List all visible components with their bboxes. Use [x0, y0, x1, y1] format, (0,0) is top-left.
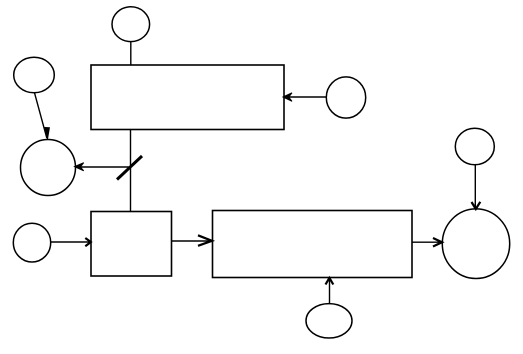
circle C4 (lower left): [13, 223, 50, 262]
wire C2 to E1: [35, 93, 47, 138]
arrowhead into C5 left edge: [433, 238, 442, 247]
arrowhead into R1 right edge: [283, 93, 292, 102]
wire C6 to C5: [474, 165, 476, 209]
wire E2 to R2: [329, 278, 331, 304]
arrowhead into R2 bottom edge: [326, 278, 334, 285]
wire R2 to C5: [412, 241, 442, 243]
wire S1 to R2: [172, 240, 213, 242]
arrowhead into R2 left edge: [198, 235, 212, 246]
square S1: [91, 212, 172, 277]
wire C1 to R1: [130, 42, 132, 65]
rectangle R1: [91, 65, 284, 130]
rectangle R2: [213, 211, 413, 278]
circle C6 (top right): [455, 128, 494, 165]
circle C3 (right of R1): [326, 77, 365, 118]
ellipse E2 (bottom): [306, 304, 352, 338]
wire C3 to R1: [284, 96, 326, 98]
wire C4 to S1: [51, 241, 91, 243]
circle C5 (big right): [442, 209, 509, 279]
arrowhead into E1 top: [45, 128, 49, 140]
wire junction to E1: [76, 166, 131, 168]
arrowhead into S1 left edge: [85, 238, 91, 246]
wire R1 to S1 (vertical): [130, 130, 132, 212]
beam splitter diagonal: [117, 156, 142, 180]
ellipse E1 (left): [21, 140, 76, 196]
circle C1 (top): [112, 7, 150, 42]
arrowhead into C5 top edge: [472, 202, 481, 209]
arrowhead into E1 right edge: [75, 163, 84, 171]
circle C2 (upper left): [14, 57, 55, 93]
